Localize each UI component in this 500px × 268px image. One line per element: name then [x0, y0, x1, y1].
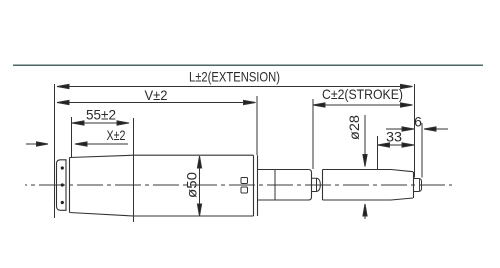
cap screw dot 3: [61, 201, 64, 204]
svg-text:X±2: X±2: [107, 127, 126, 143]
extension line E7 (nub end): [421, 123, 423, 178]
end cap: [57, 160, 67, 211]
dimension 55 line: [72, 121, 129, 125]
dimension dia50 line: [197, 156, 201, 216]
dimension C line: [313, 103, 413, 107]
svg-text:33: 33: [386, 129, 402, 145]
extension line E3 (cone/tube seam): [133, 118, 135, 222]
dimension dia28 upper leg: [363, 115, 367, 167]
dimension 6 left outside arrow: [386, 127, 414, 131]
extension line E1 (left face): [54, 84, 56, 218]
tube end ring: [257, 155, 259, 216]
svg-text:C±2(STROKE): C±2(STROKE): [322, 86, 403, 102]
svg-text:55±2: 55±2: [86, 107, 116, 123]
cap screw dot 2: [61, 183, 64, 186]
centerline: [25, 184, 452, 186]
dimension 6 right outside arrow: [424, 127, 448, 131]
nipple: [312, 178, 321, 191]
dimension V line: [57, 100, 256, 104]
outer tube body: [134, 155, 254, 216]
svg-text:ø28: ø28: [346, 115, 362, 140]
extension line E5 (stroke start): [312, 99, 314, 169]
end nub: [414, 179, 422, 192]
extension line E8 (33 ref): [377, 136, 379, 169]
svg-text:L±2(EXTENSION): L±2(EXTENSION): [189, 69, 280, 85]
svg-text:ø50: ø50: [184, 172, 200, 198]
dimension 33 line: [378, 143, 415, 147]
top rule (teal): [13, 64, 483, 66]
svg-text:6: 6: [414, 114, 422, 130]
dimension X line: [75, 142, 128, 146]
inner tube seam: [274, 170, 276, 201]
taper cone: [70, 155, 134, 216]
extension line E2: [71, 117, 73, 158]
dimension L line: [57, 84, 413, 88]
extension line E6 (rod end): [414, 84, 416, 178]
extension line E4 (tube end): [256, 96, 258, 155]
vent square upper: [241, 178, 248, 184]
dimension X outside arrow: [26, 142, 48, 146]
vent square lower: [241, 187, 248, 193]
svg-text:V±2: V±2: [145, 87, 168, 103]
cap screw dot 1: [61, 166, 64, 169]
piston rod: [323, 170, 414, 201]
inner tube: [258, 170, 312, 201]
dimension dia28 lower leg: [363, 204, 367, 219]
nub inner line: [419, 179, 421, 192]
